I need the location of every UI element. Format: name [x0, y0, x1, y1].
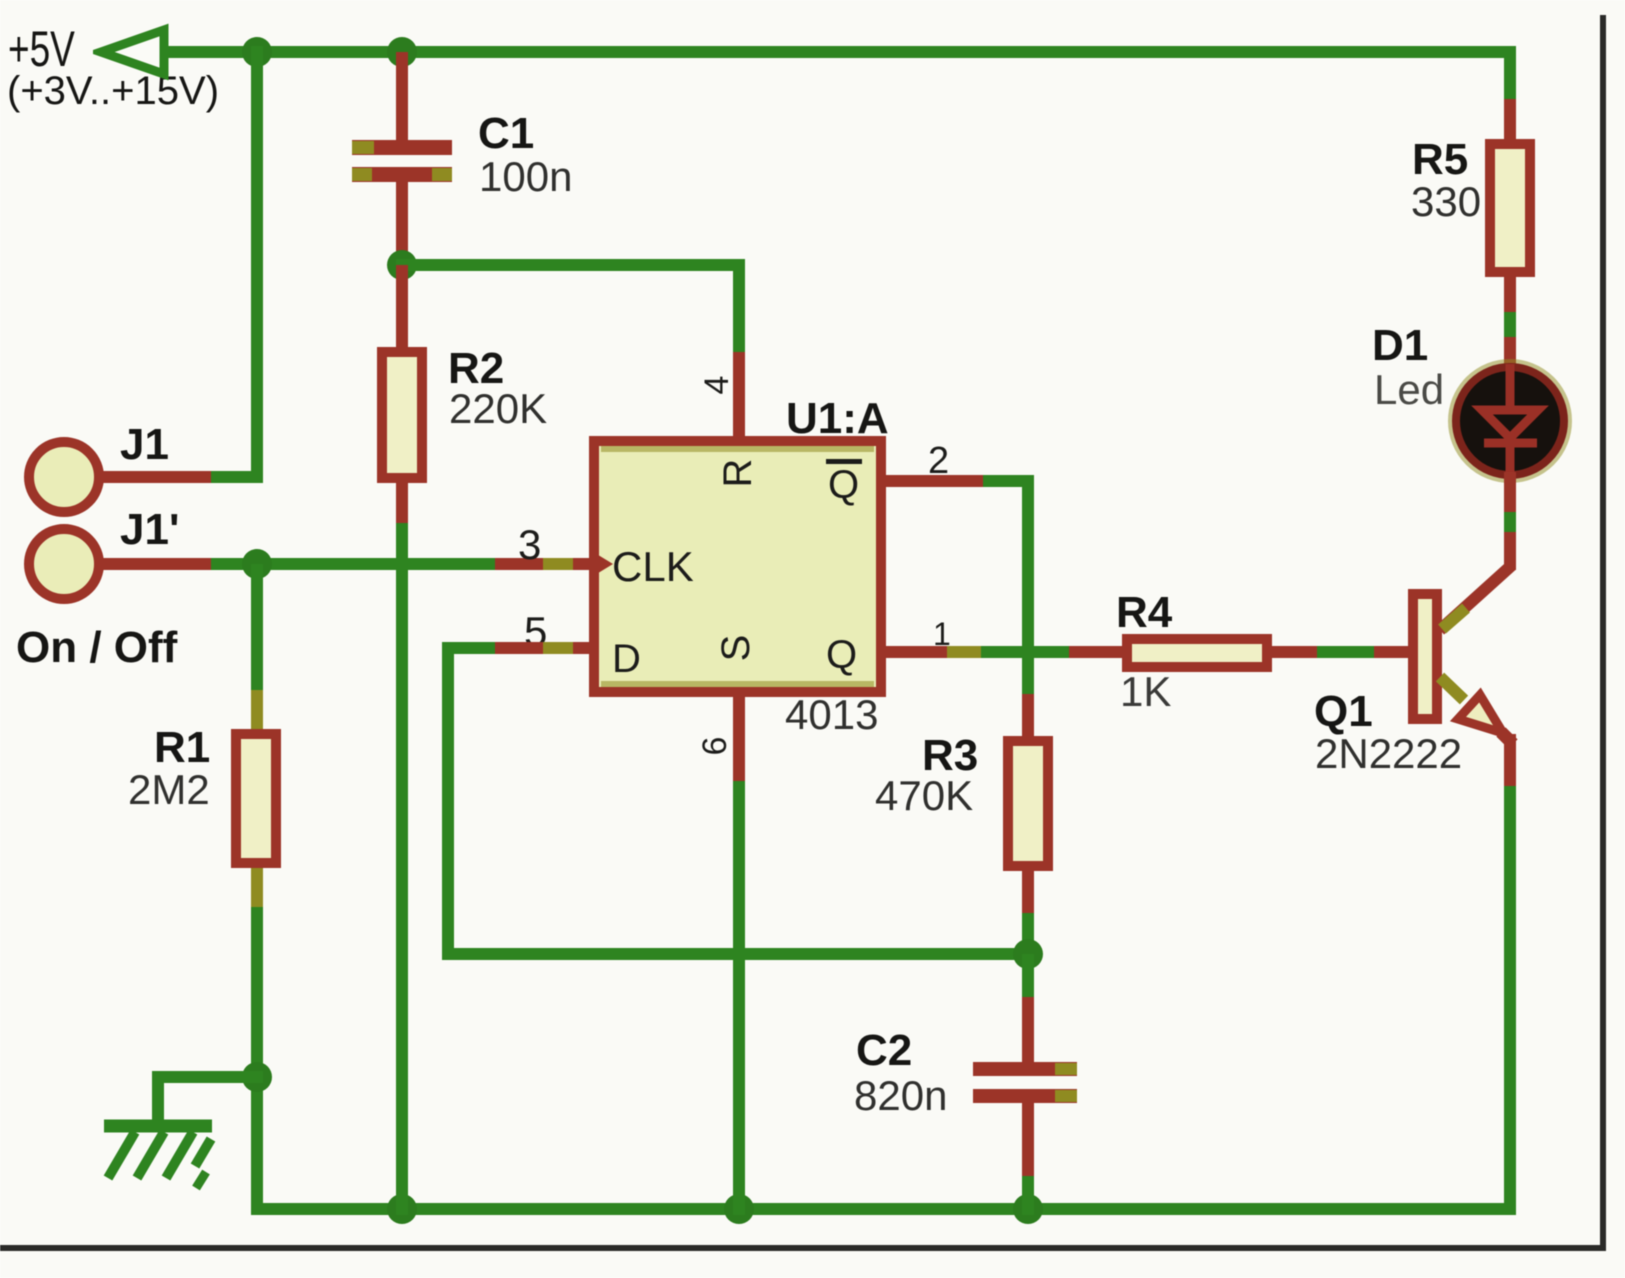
wire C2 top lead green	[1022, 954, 1034, 997]
wire base lead red a	[1272, 646, 1317, 658]
wire R3 bottom green	[1022, 913, 1034, 954]
wire pin1 red stub	[886, 646, 947, 658]
wire pin2 green horizontal	[983, 475, 1034, 487]
label Q1	[1314, 690, 1373, 734]
wire pin2 red stub	[886, 475, 983, 487]
label R3	[922, 734, 978, 778]
wire D1-Q1 green segment	[1504, 512, 1516, 532]
wire top +5V rail	[160, 46, 1516, 58]
IC U1:A body	[589, 436, 886, 697]
value R4 1K	[1120, 671, 1171, 713]
wire D pin stub red	[495, 642, 591, 654]
value R1 2M2	[128, 769, 210, 811]
wire pin4 vertical red	[733, 352, 745, 436]
wire base lead red b	[1374, 646, 1408, 658]
IC Qbar overbar	[826, 459, 862, 464]
wire C1 bottom lead red	[396, 182, 408, 271]
junction ground node	[242, 1062, 272, 1092]
junction top rail / C1 column	[387, 37, 417, 67]
wire J1' lead red	[98, 558, 211, 570]
wire D net vertical green	[442, 642, 454, 960]
pin number 6	[695, 726, 735, 766]
value 4013	[785, 694, 878, 736]
wire emitter vertical green to rail	[1504, 786, 1516, 1215]
wire pin4 vertical green	[733, 265, 745, 352]
IC pin label R rotated	[718, 453, 758, 493]
wire pin1 green	[981, 646, 1069, 658]
label U1:A	[786, 397, 889, 441]
wire pin1 olive patch	[947, 646, 981, 658]
connector J1'	[24, 524, 104, 604]
wire C1 top lead red	[396, 52, 408, 140]
junction bottom rail / C2 column	[1013, 1194, 1043, 1224]
IC inner olive top edge	[601, 446, 874, 452]
wire left column from rail down to J1	[251, 46, 263, 483]
junction top rail / J1 column	[242, 37, 272, 67]
resistor R3	[1003, 736, 1053, 871]
wire Qbar net vertical green	[1022, 475, 1034, 694]
wire ground branch vertical	[152, 1077, 164, 1124]
pin number 2	[928, 442, 949, 480]
value R5 330	[1411, 181, 1481, 223]
wire D net horizontal green	[442, 642, 495, 654]
label C2	[856, 1029, 912, 1073]
value R2 220K	[449, 388, 547, 430]
ground symbol	[95, 1112, 225, 1192]
pin3 clock arrowhead	[589, 549, 617, 579]
transistor Q1 base bar	[1408, 589, 1442, 724]
wire CLK net green J1' to pin3	[211, 558, 495, 570]
label R4	[1116, 591, 1172, 635]
wire R5 bottom lead red	[1504, 277, 1516, 312]
wire mid horizontal green to R3/C2 node	[442, 948, 1034, 960]
wire C2 bottom lead red	[1022, 1103, 1034, 1176]
pin number 3	[518, 524, 541, 566]
IC pin label Q bottom	[826, 635, 857, 675]
wire collector vertical red	[1504, 532, 1516, 570]
wire J1 lead green	[211, 471, 263, 483]
label J1	[120, 423, 169, 467]
wire R1 bottom lead olive	[251, 868, 263, 907]
capacitor C1	[352, 140, 452, 155]
transistor Q1 emitter diagonal with arrow	[1430, 665, 1525, 750]
capacitor C2	[973, 1062, 1077, 1076]
node +5V power label	[8, 24, 75, 74]
junction J1' / R1 node	[242, 549, 272, 579]
connector J1	[24, 437, 104, 517]
wire D1 top lead red	[1504, 337, 1516, 372]
label R1	[154, 726, 210, 770]
wire emitter vertical red	[1504, 734, 1516, 786]
IC inner olive bottom edge	[601, 681, 874, 687]
IC pin label D	[612, 639, 641, 679]
resistor R1	[231, 729, 281, 868]
wire bottom ground rail	[251, 1203, 1516, 1215]
wire R2 column green to bottom rail	[396, 523, 408, 1215]
wire base lead green	[1317, 646, 1374, 658]
junction bottom rail / pin6 column	[724, 1194, 754, 1224]
junction bottom rail / R2 column	[387, 1194, 417, 1224]
wire R3 bottom lead red	[1022, 871, 1034, 913]
wire pin3 red stub	[495, 558, 591, 570]
junction R3 / C2 / D node	[1013, 939, 1043, 969]
IC pin label S rotated	[716, 628, 756, 668]
wire R4 left lead red	[1069, 646, 1122, 658]
IC pin label CLK	[612, 546, 694, 588]
wire R1 top lead olive	[251, 690, 263, 730]
value C1 100n	[479, 156, 572, 198]
wire pin6 green to bottom rail	[733, 781, 745, 1215]
wire R2 top lead red	[396, 265, 408, 347]
value D1 Led	[1374, 369, 1444, 411]
label C1	[478, 112, 534, 156]
led D1	[1445, 356, 1577, 488]
pin number 4	[697, 365, 737, 405]
power arrow +5V	[93, 23, 173, 81]
label On / Off	[16, 626, 177, 670]
wire R5 top lead red	[1504, 99, 1516, 139]
wire pin3 olive patch	[543, 558, 573, 570]
resistor R4	[1122, 634, 1272, 672]
pin number 1	[933, 618, 951, 650]
IC pin label Qbar	[828, 465, 859, 505]
wire ground branch horizontal	[152, 1071, 263, 1083]
node +5V range label	[7, 71, 219, 111]
label D1	[1372, 324, 1428, 368]
wire J1' node down green	[251, 564, 263, 690]
value C2 820n	[854, 1075, 947, 1117]
pin number 5	[524, 611, 547, 653]
wire J1 lead red	[98, 471, 211, 483]
wire C2 top lead red	[1022, 997, 1034, 1062]
wire R5-D1 green segment	[1504, 312, 1516, 337]
label R2	[448, 347, 504, 391]
wire D1 bottom red	[1504, 472, 1516, 512]
junction C1 / R2 / pin4 node	[387, 250, 417, 280]
wire R2 bottom lead red	[396, 483, 408, 523]
wire C2 bottom green	[1022, 1176, 1034, 1215]
value R3 470K	[875, 775, 973, 817]
label J1'	[120, 508, 179, 552]
value Q1 2N2222	[1315, 733, 1462, 775]
label R5	[1412, 138, 1468, 182]
resistor R2	[377, 347, 427, 483]
wire R3 top lead red	[1022, 694, 1034, 736]
wire pin6 red stub	[733, 697, 745, 781]
resistor R5	[1485, 139, 1535, 277]
wire right column top green	[1504, 46, 1516, 99]
wire R1 to bottom rail green	[251, 907, 263, 1215]
wire D pin olive patch	[543, 642, 573, 654]
wire pin4 net horizontal green	[396, 259, 745, 271]
transistor Q1 collector diagonal	[1430, 555, 1525, 640]
